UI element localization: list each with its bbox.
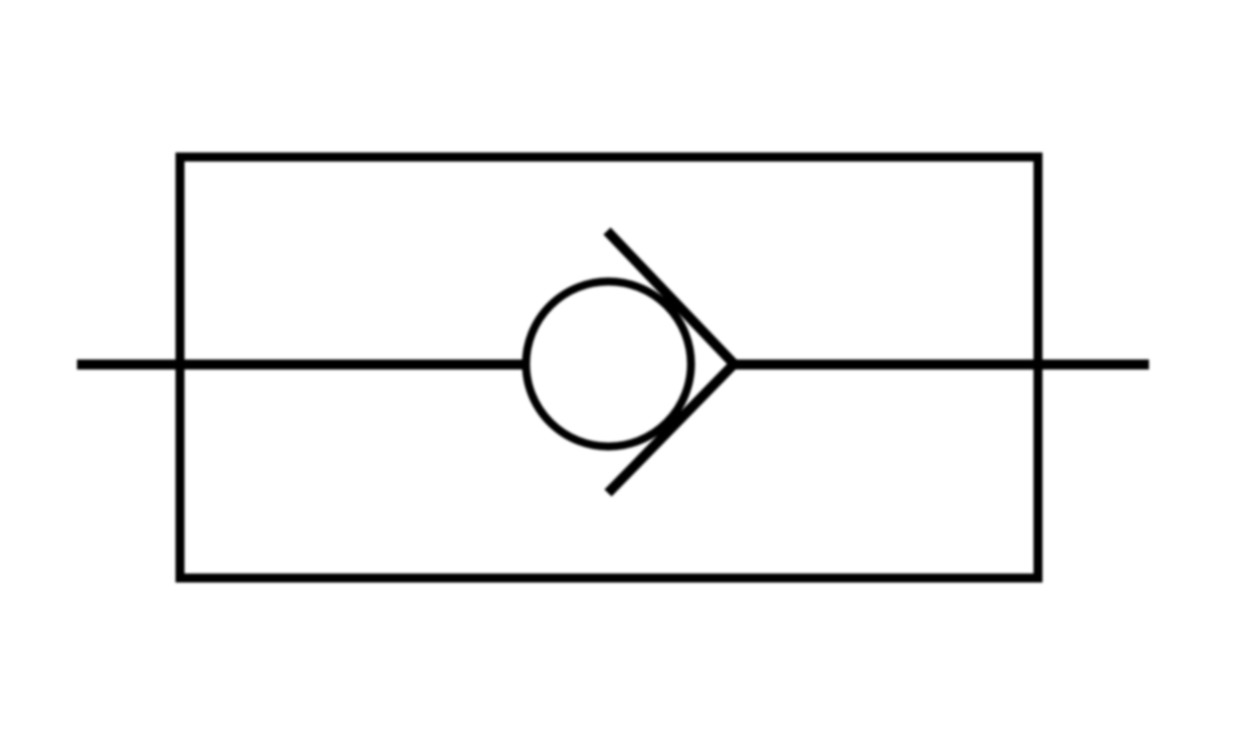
enclosure rectangle (valve body)	[180, 157, 1038, 578]
wire (left port line)	[77, 360, 528, 370]
valve seat upper line	[607, 231, 734, 364]
valve seat lower line	[608, 364, 734, 493]
wire (right port line)	[731, 360, 1149, 370]
check valve ball (circle)	[526, 282, 691, 447]
